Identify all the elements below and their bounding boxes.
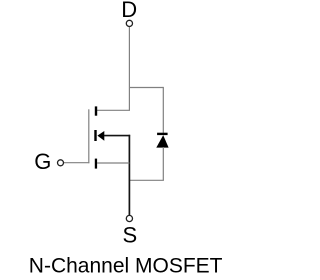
transistor Q1 drain contact bar [95, 106, 97, 115]
transistor Q1 body contact bar [94, 130, 96, 141]
svg-text:G: G [34, 149, 51, 174]
transistor Q1 source contact bar [95, 159, 97, 169]
wire: branch right toward body diode cathode [129, 87, 163, 89]
terminal S (open circle) [126, 215, 132, 221]
transistor Q1 gate electrode line [88, 109, 90, 163]
terminal G (open circle) [58, 160, 64, 166]
wire: source contact horizontal [97, 162, 129, 164]
diode D1 cathode bar [157, 133, 168, 135]
wire: diode bottom branch left to source rail [129, 179, 164, 181]
svg-text:N-Channel MOSFET: N-Channel MOSFET [29, 254, 223, 277]
wire: diode anode down [162, 147, 164, 180]
wire: drain contact horizontal [97, 109, 130, 111]
wire: gate lead to G terminal [64, 162, 90, 164]
wire: D terminal down to drain contact level [128, 27, 130, 110]
terminal D (open circle) [126, 20, 132, 26]
svg-text:D: D [121, 0, 137, 22]
wire: body contact to source rail (bold) [104, 135, 130, 137]
wire: source rail vertical down to S terminal (bold) [128, 135, 130, 215]
wire: diode branch vertical down to diode cathode [162, 87, 164, 133]
svg-text:S: S [122, 223, 137, 248]
transistor Q1 body arrow (points into channel) [97, 131, 104, 141]
diode D1 anode triangle (pointing up) [156, 135, 168, 148]
